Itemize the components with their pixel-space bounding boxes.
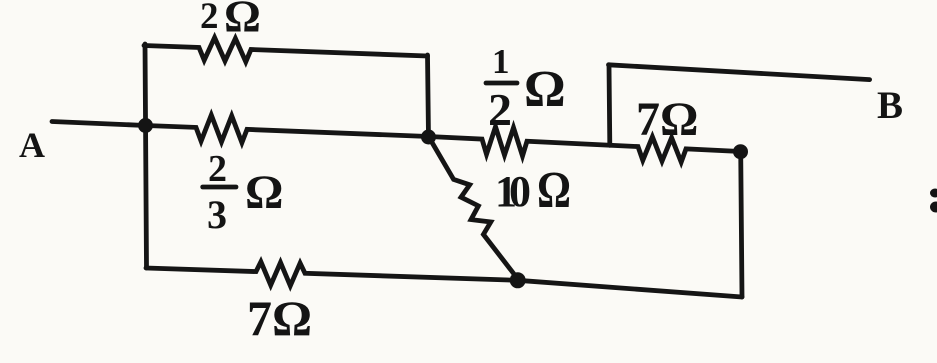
svg-text:Ω: Ω — [524, 61, 566, 118]
svg-text:2: 2 — [200, 0, 219, 37]
svg-text:1: 1 — [492, 42, 510, 81]
svg-text:7Ω: 7Ω — [636, 93, 698, 146]
svg-text:B: B — [877, 84, 903, 127]
svg-text:3: 3 — [207, 192, 227, 237]
svg-text:Ω: Ω — [245, 166, 283, 219]
svg-text:0: 0 — [509, 167, 531, 216]
svg-text:A: A — [19, 125, 45, 165]
svg-text:2: 2 — [488, 85, 512, 135]
svg-text:Ω: Ω — [537, 162, 571, 219]
svg-text:7Ω: 7Ω — [247, 290, 312, 346]
svg-text:Ω: Ω — [224, 0, 261, 42]
svg-text:2: 2 — [208, 148, 227, 190]
